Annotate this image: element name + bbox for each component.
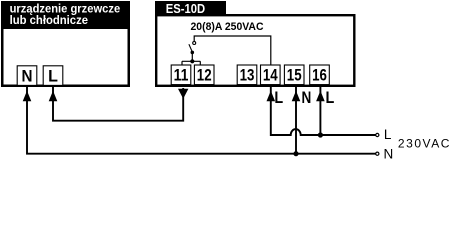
svg-text:20(8)A 250VAC: 20(8)A 250VAC (191, 21, 264, 33)
wire: terminal 14 down to L line with hop over N (271, 86, 376, 135)
junction on 11-12 bar (190, 59, 194, 63)
wire: pivot riser (191, 52, 193, 61)
svg-text:16: 16 (312, 66, 327, 85)
terminal 13 (237, 65, 257, 85)
svg-text:14: 14 (263, 66, 278, 85)
relay fixed contact (193, 42, 196, 45)
mains N terminal circle (376, 152, 379, 155)
wire: contact to terminal 14 (194, 36, 271, 65)
svg-text:lub chłodnicze: lub chłodnicze (10, 13, 89, 27)
svg-text:N: N (384, 146, 394, 160)
arrow into terminal 15 (292, 91, 301, 102)
arrow into N (device) (23, 91, 32, 102)
arrow out of terminal 11 (178, 89, 188, 99)
svg-text:11: 11 (174, 66, 189, 85)
device box header bar (1, 1, 128, 29)
svg-text:12: 12 (197, 66, 212, 85)
svg-text:230VAC: 230VAC (398, 137, 450, 151)
svg-text:L: L (384, 127, 392, 142)
device box (urządzenie grzewcze lub chłodnicze) (2, 2, 129, 86)
terminal N (device) (17, 66, 37, 86)
arrow into terminal 14 (267, 91, 276, 102)
svg-text:N: N (302, 88, 312, 107)
terminal 16 (310, 65, 330, 85)
relay pivot dot (191, 51, 195, 55)
wire: terminal 16 down to L line (319, 86, 321, 135)
wire: 11-12 common bar (182, 61, 200, 65)
terminal 12 (194, 65, 214, 85)
svg-text:ES-10D: ES-10D (166, 2, 205, 16)
wire: L device to terminal 11 (53, 86, 183, 121)
wire: N device to mains N line (27, 86, 376, 154)
terminal 11 (171, 65, 191, 85)
svg-text:15: 15 (287, 66, 302, 85)
ES-10D header tab (155, 1, 226, 15)
arrow into L (device) (49, 91, 58, 102)
svg-text:L: L (48, 67, 58, 86)
terminal 14 (261, 65, 281, 85)
wire: terminal 15 down to N line (295, 86, 297, 154)
ES-10D box (156, 15, 354, 86)
svg-text:13: 13 (240, 66, 255, 85)
arrow into terminal 16 (316, 91, 325, 102)
svg-text:L: L (274, 88, 283, 107)
junction dot on N line (293, 151, 298, 156)
junction dot on L line (318, 132, 323, 137)
relay switch blade (189, 44, 193, 52)
mains L terminal circle (376, 133, 379, 136)
svg-text:L: L (326, 88, 335, 107)
terminal 15 (284, 65, 304, 85)
terminal L (device) (43, 66, 63, 86)
svg-text:N: N (22, 67, 33, 86)
